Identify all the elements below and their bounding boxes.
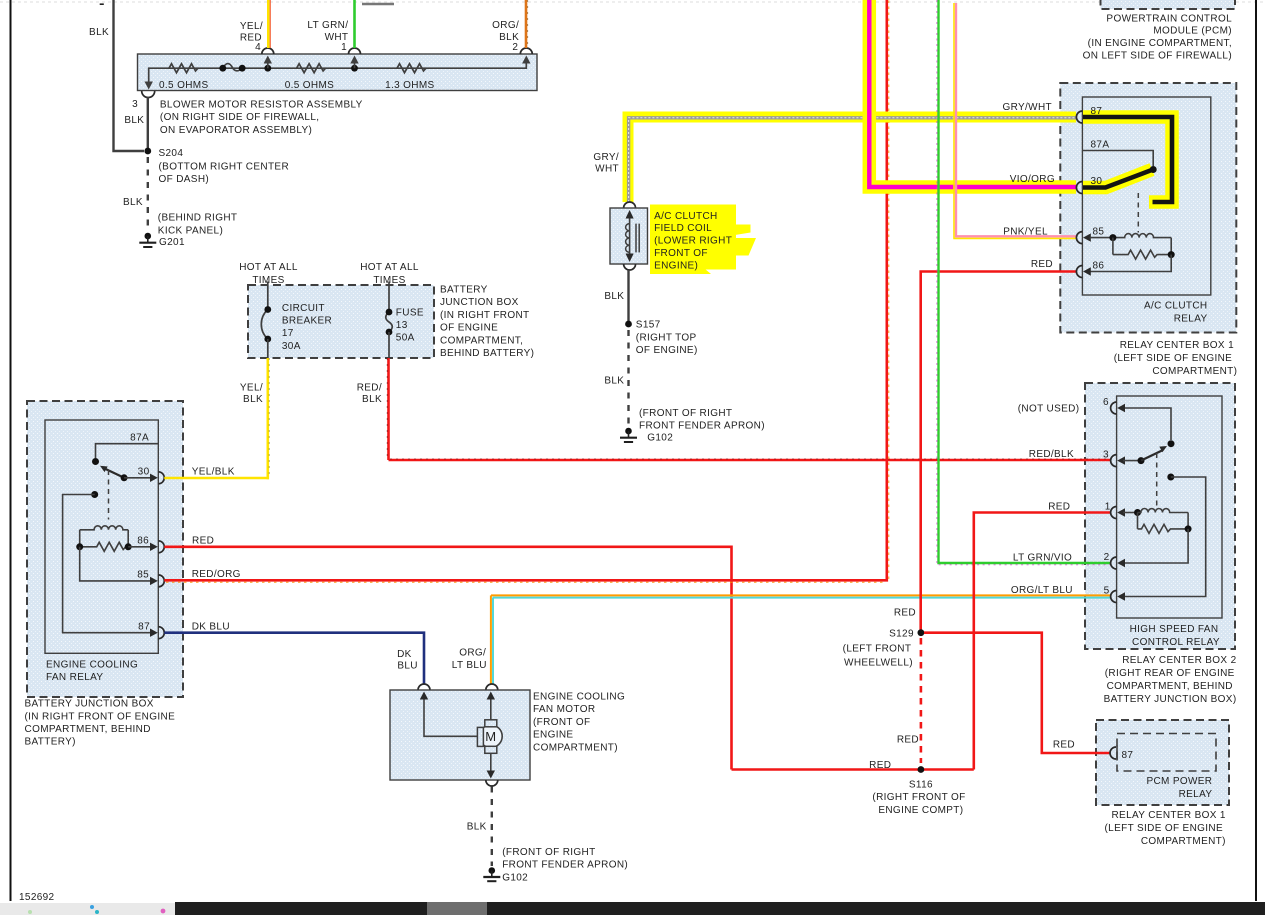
contact pivot dot xyxy=(92,458,99,465)
svg-text:(LEFT FRONT: (LEFT FRONT xyxy=(843,644,912,655)
wire ORG/BLK xyxy=(525,0,528,48)
page border left xyxy=(10,0,12,901)
svg-text:ORG/: ORG/ xyxy=(492,20,519,31)
wire YEL/BLK horizontal xyxy=(164,477,269,480)
switch arm xyxy=(1141,451,1162,461)
svg-text:BLU: BLU xyxy=(397,660,418,671)
svg-text:87A: 87A xyxy=(1091,140,1110,151)
splice S129 xyxy=(918,629,925,636)
svg-text:LT GRN/VIO: LT GRN/VIO xyxy=(1013,553,1072,564)
relay center box 1 lower (dashed) xyxy=(1096,720,1229,805)
svg-text:FUSE: FUSE xyxy=(396,307,424,318)
wire RED dashed S129-S116 xyxy=(920,638,923,763)
svg-text:2: 2 xyxy=(1104,552,1110,563)
svg-text:PNK/YEL: PNK/YEL xyxy=(1003,227,1048,238)
svg-text:ORG/LT BLU: ORG/LT BLU xyxy=(1011,585,1073,596)
svg-text:S157: S157 xyxy=(636,320,661,331)
wire ORG/LT BLU horizontal xyxy=(491,594,1111,596)
svg-text:BATTERY JUNCTION BOX: BATTERY JUNCTION BOX xyxy=(25,699,154,710)
svg-text:(IN RIGHT FRONT: (IN RIGHT FRONT xyxy=(440,310,530,321)
pivot dot xyxy=(1150,166,1157,173)
blower motor resistor assembly box xyxy=(138,54,538,91)
junction pin1 xyxy=(351,65,358,72)
svg-text:G201: G201 xyxy=(159,237,185,248)
splice S157 xyxy=(625,321,632,328)
svg-text:(RIGHT TOP: (RIGHT TOP xyxy=(636,332,697,343)
wire BLK below field coil xyxy=(627,270,629,324)
relay resistor xyxy=(1113,250,1169,259)
motor brushes xyxy=(485,720,497,727)
label PCM xyxy=(1083,13,1232,61)
field coil box xyxy=(610,208,648,264)
svg-text:FIELD COIL: FIELD COIL xyxy=(654,223,712,234)
svg-text:CONTROL RELAY: CONTROL RELAY xyxy=(1132,637,1220,648)
svg-text:87: 87 xyxy=(1091,106,1103,117)
arrow pin 1 up xyxy=(354,59,356,68)
wire BLK dashed to G201 xyxy=(147,157,149,231)
armature link dashed xyxy=(1156,453,1158,509)
stray black tick top-left xyxy=(100,3,104,5)
svg-text:RELAY CENTER BOX 1: RELAY CENTER BOX 1 xyxy=(1111,810,1225,821)
arrow pin 3 down xyxy=(145,82,153,90)
svg-text:RED: RED xyxy=(192,536,214,547)
svg-text:VIO/ORG: VIO/ORG xyxy=(1010,174,1055,185)
svg-text:GRY/WHT: GRY/WHT xyxy=(1003,102,1053,113)
svg-text:(IN ENGINE COMPARTMENT,: (IN ENGINE COMPARTMENT, xyxy=(1088,38,1232,49)
svg-text:30: 30 xyxy=(138,467,150,478)
svg-text:BREAKER: BREAKER xyxy=(282,316,332,327)
wire NO contact to pin 87 xyxy=(63,495,152,633)
svg-text:FAN RELAY: FAN RELAY xyxy=(46,672,103,683)
svg-text:0.5 OHMS: 0.5 OHMS xyxy=(159,80,208,91)
wire internal bus xyxy=(149,59,527,84)
svg-text:30A: 30A xyxy=(282,341,301,352)
svg-text:G102: G102 xyxy=(641,432,673,443)
connector arc pin 30 xyxy=(158,472,164,484)
svg-text:RED: RED xyxy=(894,608,916,619)
stray gray mark top xyxy=(362,3,394,6)
wire ORG/LT BLU vertical xyxy=(490,595,492,684)
svg-text:HOT AT ALL: HOT AT ALL xyxy=(239,262,298,273)
svg-text:(LEFT SIDE OF ENGINE: (LEFT SIDE OF ENGINE xyxy=(1105,823,1224,834)
highlight blob A/C clutch label xyxy=(650,205,736,270)
motor bottom wire with down arrow xyxy=(490,753,492,772)
svg-text:13: 13 xyxy=(396,320,408,331)
svg-text:JUNCTION BOX: JUNCTION BOX xyxy=(440,297,519,308)
svg-text:RED/BLK: RED/BLK xyxy=(1029,449,1074,460)
svg-text:BLK: BLK xyxy=(124,115,144,126)
svg-text:A/C CLUTCH: A/C CLUTCH xyxy=(654,211,718,222)
svg-text:ENGINE: ENGINE xyxy=(533,730,573,741)
wire RED/BLK vertical xyxy=(387,358,390,460)
svg-text:17: 17 xyxy=(282,328,294,339)
svg-text:POWERTRAIN CONTROL: POWERTRAIN CONTROL xyxy=(1106,13,1232,24)
svg-text:BATTERY JUNCTION BOX): BATTERY JUNCTION BOX) xyxy=(1104,694,1237,705)
svg-text:(FRONT OF: (FRONT OF xyxy=(533,717,590,728)
svg-text:BLK: BLK xyxy=(243,394,263,405)
battery junction box (relay housing, dashed) xyxy=(27,401,183,697)
svg-text:YEL/: YEL/ xyxy=(240,21,263,32)
PCM power relay inner box (dashed) xyxy=(1117,734,1216,772)
battery junction box xyxy=(248,285,434,358)
svg-text:4: 4 xyxy=(255,42,261,53)
svg-text:BLK: BLK xyxy=(89,27,109,38)
pin 86 wire xyxy=(1090,255,1172,272)
svg-text:RELAY CENTER BOX 1: RELAY CENTER BOX 1 xyxy=(1120,340,1234,351)
resistor 0.5 OHMS (1) xyxy=(169,64,198,73)
pin 6 wire xyxy=(1123,408,1171,440)
resistor 0.5 OHMS (2) xyxy=(297,64,326,73)
wire VIO/ORG highlight xyxy=(869,0,1076,187)
wire RED (pin 86 to S116 leg) xyxy=(164,547,731,770)
wire BLK (top left vertical) xyxy=(114,0,145,151)
highlighted switch arm 30 xyxy=(1083,170,1152,188)
connector arc motor pin left xyxy=(418,684,430,690)
svg-text:RED: RED xyxy=(897,735,919,746)
bottom bar gray block xyxy=(427,902,487,915)
svg-text:YEL/: YEL/ xyxy=(240,383,263,394)
connector arc pin 3 xyxy=(142,91,155,98)
svg-text:3: 3 xyxy=(1103,450,1109,461)
svg-text:5: 5 xyxy=(1104,586,1110,597)
svg-text:(BEHIND RIGHT: (BEHIND RIGHT xyxy=(158,213,238,224)
svg-text:BLK: BLK xyxy=(604,376,624,387)
connector arc field coil bottom xyxy=(624,264,636,270)
svg-text:(RIGHT FRONT OF: (RIGHT FRONT OF xyxy=(872,792,965,803)
svg-text:LT GRN/: LT GRN/ xyxy=(307,20,348,31)
relay inner box xyxy=(45,420,158,653)
svg-text:(LOWER RIGHT: (LOWER RIGHT xyxy=(654,236,732,247)
highlighted contact path 87 xyxy=(1083,117,1172,202)
wire GRY/WHT highlight xyxy=(628,117,1076,202)
wire LT GRN/VIO xyxy=(939,0,1111,563)
svg-text:RELAY: RELAY xyxy=(1174,314,1208,325)
motor internal right wire with up arrow xyxy=(490,698,492,720)
circuit breaker 17 30A xyxy=(267,282,269,310)
svg-text:ORG/: ORG/ xyxy=(459,647,486,658)
wire PNK/YEL xyxy=(956,3,1076,236)
pin 30 wire xyxy=(124,477,151,479)
svg-text:DK BLU: DK BLU xyxy=(192,621,230,632)
connector arc pin 1 xyxy=(349,48,361,54)
wire YEL/BLK vertical xyxy=(266,358,269,479)
svg-text:RED/: RED/ xyxy=(357,383,382,394)
wire RED S129 to PCM power relay xyxy=(924,633,1110,753)
svg-text:RED: RED xyxy=(1048,502,1070,513)
svg-text:(ON RIGHT SIDE OF FIREWALL,: (ON RIGHT SIDE OF FIREWALL, xyxy=(160,112,319,123)
wire YEL/RED xyxy=(267,0,270,48)
svg-text:S204: S204 xyxy=(159,148,184,159)
ground G102 (bottom) xyxy=(483,867,500,881)
svg-text:(NOT USED): (NOT USED) xyxy=(1018,403,1080,414)
svg-text:RED: RED xyxy=(869,760,891,771)
svg-text:(LEFT SIDE OF ENGINE: (LEFT SIDE OF ENGINE xyxy=(1114,353,1233,364)
svg-text:BATTERY): BATTERY) xyxy=(25,737,76,748)
svg-text:(RIGHT REAR OF ENGINE: (RIGHT REAR OF ENGINE xyxy=(1105,668,1235,679)
bottom bar icon specks xyxy=(90,905,94,909)
pin 3 wire xyxy=(1117,456,1125,464)
switch arm xyxy=(104,468,125,478)
field coil element xyxy=(629,216,631,256)
svg-text:COMPARTMENT, BEHIND: COMPARTMENT, BEHIND xyxy=(25,724,151,735)
svg-text:RED/ORG: RED/ORG xyxy=(192,569,241,580)
svg-text:BEHIND BATTERY): BEHIND BATTERY) xyxy=(440,348,534,359)
svg-text:ON EVAPORATOR ASSEMBLY): ON EVAPORATOR ASSEMBLY) xyxy=(160,125,312,136)
svg-text:BLK: BLK xyxy=(123,197,143,208)
PCM box (dashed, cut off at top) xyxy=(1101,0,1236,9)
motor internal left wire with up arrow xyxy=(424,698,477,736)
svg-text:1: 1 xyxy=(1105,502,1111,513)
svg-text:ENGINE COOLING: ENGINE COOLING xyxy=(46,659,138,670)
fuse 13 50A xyxy=(388,282,390,313)
svg-text:BLK: BLK xyxy=(467,822,487,833)
A/C clutch relay inner box xyxy=(1082,97,1210,295)
svg-text:(BOTTOM RIGHT CENTER: (BOTTOM RIGHT CENTER xyxy=(159,161,290,172)
connector arcs pins (left side) xyxy=(1111,402,1117,414)
svg-text:ENGINE): ENGINE) xyxy=(654,260,698,271)
svg-text:85: 85 xyxy=(137,570,149,581)
bottom bar dark strip xyxy=(175,902,1265,915)
connector arc motor bottom xyxy=(486,780,498,786)
svg-text:RELAY: RELAY xyxy=(1179,789,1213,800)
wire BLK dashed to G102 (bottom) xyxy=(491,787,493,867)
svg-text:(FRONT OF RIGHT: (FRONT OF RIGHT xyxy=(502,847,595,858)
fan motor box xyxy=(390,690,530,780)
svg-text:CIRCUIT: CIRCUIT xyxy=(282,303,325,314)
svg-text:3: 3 xyxy=(132,99,138,110)
svg-text:6: 6 xyxy=(1103,397,1109,408)
svg-text:87A: 87A xyxy=(130,432,149,443)
svg-text:YEL/BLK: YEL/BLK xyxy=(192,467,235,478)
svg-text:BLK: BLK xyxy=(362,394,382,405)
pin 87 arrow xyxy=(150,629,158,637)
svg-text:1.3 OHMS: 1.3 OHMS xyxy=(385,80,434,91)
wire GRY/WHT gray core xyxy=(629,118,1076,202)
svg-text:COMPARTMENT): COMPARTMENT) xyxy=(533,742,618,753)
pin 86 wire xyxy=(128,546,151,548)
svg-text:BLK: BLK xyxy=(604,291,624,302)
svg-text:LT BLU: LT BLU xyxy=(452,660,487,671)
wire BLK dashed to G102 xyxy=(627,330,629,427)
armature link dashed xyxy=(108,470,110,520)
svg-text:G102: G102 xyxy=(502,872,528,883)
high speed fan control relay inner box xyxy=(1117,396,1222,618)
svg-text:WHT: WHT xyxy=(595,164,619,175)
ground G201 xyxy=(139,233,156,247)
pin 2 wire xyxy=(1123,529,1188,563)
bottom bar light left strip xyxy=(0,903,175,915)
contact 87A wire xyxy=(96,444,159,458)
svg-text:HOT AT ALL: HOT AT ALL xyxy=(360,262,419,273)
svg-text:M: M xyxy=(485,729,496,744)
svg-text:FRONT FENDER APRON): FRONT FENDER APRON) xyxy=(502,860,628,871)
wire RED high speed relay pin 1 xyxy=(974,513,1111,770)
svg-text:FAN MOTOR: FAN MOTOR xyxy=(533,704,595,715)
wire RED S116 horizontal xyxy=(732,768,974,771)
svg-text:KICK PANEL): KICK PANEL) xyxy=(158,225,223,236)
relay coil xyxy=(80,526,128,530)
svg-text:COMPARTMENT): COMPARTMENT) xyxy=(1152,366,1237,377)
pin 85 arrow xyxy=(1083,233,1091,241)
connector arc pin 87 xyxy=(158,627,164,639)
svg-text:S116: S116 xyxy=(909,779,933,790)
connector arcs pins (left side) xyxy=(1076,111,1082,123)
arrow pin 2 up xyxy=(522,56,530,64)
arrow pin 4 up xyxy=(267,59,269,68)
svg-text:152692: 152692 xyxy=(19,892,55,903)
splice S204 xyxy=(144,148,151,155)
svg-text:50A: 50A xyxy=(396,333,415,344)
splice S116 xyxy=(918,766,925,773)
wire DK BLU xyxy=(164,633,424,685)
svg-text:OF DASH): OF DASH) xyxy=(159,174,210,185)
motor M circle xyxy=(479,725,502,748)
svg-text:PCM POWER: PCM POWER xyxy=(1146,776,1212,787)
svg-text:2: 2 xyxy=(512,42,518,53)
wire LT GRN/WHT xyxy=(353,0,356,48)
svg-text:RED: RED xyxy=(1031,259,1053,270)
faint top page edge line xyxy=(0,1,1265,3)
svg-text:COMPARTMENT, BEHIND: COMPARTMENT, BEHIND xyxy=(1107,681,1233,692)
svg-text:COMPARTMENT,: COMPARTMENT, xyxy=(440,335,523,346)
svg-text:0.5 OHMS: 0.5 OHMS xyxy=(285,80,334,91)
NO contact dot + wire to pin 5 xyxy=(1167,474,1174,481)
svg-text:MODULE (PCM): MODULE (PCM) xyxy=(1153,26,1232,37)
connector arc field coil top xyxy=(624,202,636,208)
armature link dashed xyxy=(1137,193,1139,233)
svg-text:RELAY CENTER BOX 2: RELAY CENTER BOX 2 xyxy=(1122,655,1236,666)
svg-text:OF ENGINE): OF ENGINE) xyxy=(636,345,698,356)
svg-text:FRONT FENDER APRON): FRONT FENDER APRON) xyxy=(639,420,765,431)
svg-text:87: 87 xyxy=(138,621,150,632)
wire VIO/ORG magenta core xyxy=(869,0,1076,187)
svg-text:COMPARTMENT): COMPARTMENT) xyxy=(1141,836,1226,847)
thermal fuse xyxy=(223,64,242,71)
relay center box 2 (dashed) xyxy=(1085,383,1235,649)
svg-text:A/C CLUTCH: A/C CLUTCH xyxy=(1144,301,1208,312)
ground G102 (right top) xyxy=(620,428,637,442)
resistor 1.3 OHMS xyxy=(397,64,426,73)
wire RED/BLK horizontal to high speed fan relay pin 3 xyxy=(389,459,1111,462)
contact 87A wire xyxy=(1082,151,1153,167)
svg-text:BLOWER MOTOR RESISTOR ASSEMBLY: BLOWER MOTOR RESISTOR ASSEMBLY xyxy=(160,100,363,111)
relay center box 1 (dashed) xyxy=(1060,83,1236,333)
connector arc pin 2 xyxy=(520,48,532,54)
svg-text:OF ENGINE: OF ENGINE xyxy=(440,323,498,334)
svg-text:FRONT OF: FRONT OF xyxy=(654,248,708,259)
svg-text:S129: S129 xyxy=(889,629,917,640)
connector arc pin 4 xyxy=(262,48,274,54)
wire pin3 to S204 xyxy=(147,97,149,151)
connector arc motor pin right xyxy=(486,684,498,690)
svg-text:85: 85 xyxy=(1093,227,1105,238)
svg-text:86: 86 xyxy=(1093,261,1105,272)
svg-text:RED: RED xyxy=(1053,740,1075,751)
svg-text:1: 1 xyxy=(341,42,347,53)
relay coil xyxy=(1113,234,1171,238)
pin 85 wire xyxy=(80,547,152,581)
pin 1 wire + relay coil xyxy=(1117,508,1125,516)
junction pin4 xyxy=(264,65,271,72)
svg-text:ENGINE COMPT): ENGINE COMPT) xyxy=(878,805,963,816)
svg-text:30: 30 xyxy=(1091,176,1103,187)
relay resistor xyxy=(1138,524,1187,533)
svg-text:87: 87 xyxy=(1122,750,1134,761)
svg-text:DK: DK xyxy=(397,649,412,660)
svg-text:ON LEFT SIDE OF FIREWALL): ON LEFT SIDE OF FIREWALL) xyxy=(1083,51,1232,62)
wire RED/ORG (pin 85 to top of page) xyxy=(164,0,887,580)
svg-text:WHEELWELL): WHEELWELL) xyxy=(844,657,913,668)
wire RED/ORG vertical already drawn ; wire RED to A/C relay pin 86 xyxy=(921,272,1076,633)
svg-text:(IN RIGHT FRONT OF ENGINE: (IN RIGHT FRONT OF ENGINE xyxy=(25,711,176,722)
svg-text:ENGINE COOLING: ENGINE COOLING xyxy=(533,692,625,703)
relay resistor xyxy=(80,542,129,551)
pin 87 connector arc xyxy=(1110,747,1116,759)
svg-text:HIGH SPEED FAN: HIGH SPEED FAN xyxy=(1130,624,1219,635)
svg-text:BATTERY: BATTERY xyxy=(440,285,488,296)
page border right xyxy=(1255,0,1257,901)
svg-text:86: 86 xyxy=(137,536,149,547)
svg-text:(FRONT OF RIGHT: (FRONT OF RIGHT xyxy=(639,408,732,419)
NO contact dot xyxy=(91,491,98,498)
svg-text:GRY/: GRY/ xyxy=(593,152,619,163)
